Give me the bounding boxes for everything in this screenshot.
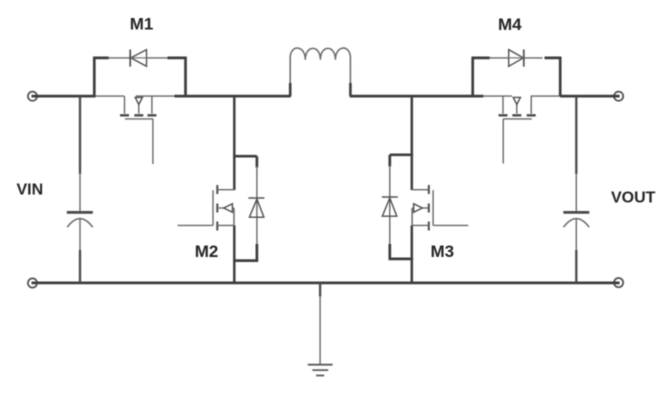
svg-text:VOUT: VOUT xyxy=(611,189,656,206)
inductor L1 xyxy=(290,48,350,96)
diode D1 (M1 body diode) xyxy=(130,50,146,67)
wire D3 branch lead xyxy=(389,166,391,246)
wire top rail M1 drain side (thin) xyxy=(94,95,124,97)
wire D1 anode lead xyxy=(147,57,169,59)
terminal node VOUT+ xyxy=(614,92,623,101)
wire top rail VIN+ to M1 riser xyxy=(32,95,95,98)
wire M3 drain branch xyxy=(411,96,414,190)
wire M2 source branch to bottom rail xyxy=(233,225,236,283)
wire M2 diode bottom jog xyxy=(233,259,258,262)
svg-text:M3: M3 xyxy=(430,242,454,261)
wire bottom rail xyxy=(32,281,620,284)
wire ground stem xyxy=(319,283,321,297)
ground xyxy=(308,365,333,376)
wire D4 anode lead xyxy=(489,57,509,59)
diode D3 (M3 body diode) xyxy=(382,197,398,216)
wire D2 branch lead xyxy=(256,166,258,245)
terminal node VIN- xyxy=(28,278,37,287)
transistor M2 xyxy=(178,185,235,231)
wire D1 cathode lead xyxy=(108,57,130,59)
svg-text:M4: M4 xyxy=(498,15,522,34)
svg-text:M1: M1 xyxy=(130,15,154,34)
wire M3 diode bottom jog xyxy=(389,258,414,261)
wire top rail M1 source side (thin) xyxy=(136,95,176,97)
wire D3 anode thick lead xyxy=(388,244,391,259)
wire top rail M4 source side (thin) xyxy=(483,95,513,97)
wire top rail M4 drain side (thin) xyxy=(531,95,561,97)
diode D2 (M2 body diode) xyxy=(248,198,264,217)
wire M2 diode top jog xyxy=(233,156,257,167)
transistor M4 xyxy=(499,96,536,163)
capacitor COUT xyxy=(563,96,589,283)
wire D4 cathode lead xyxy=(524,57,543,59)
terminal node VOUT- xyxy=(614,278,623,287)
wire M4 upper branch left riser xyxy=(471,58,489,96)
transistor M3 xyxy=(412,185,469,231)
wire D2 anode thick lead xyxy=(256,244,259,261)
svg-text:M2: M2 xyxy=(195,242,219,261)
wire M1 upper branch right riser xyxy=(168,57,187,97)
terminal node VIN+ xyxy=(28,92,37,101)
diode D4 (M4 body diode) xyxy=(509,50,524,67)
wire M4 upper branch right riser xyxy=(545,58,562,96)
wire top rail M1 to inductor (switch node A) xyxy=(175,95,291,98)
wire M1 upper branch left riser xyxy=(93,58,109,98)
wire top rail inductor to M4 (switch node B) xyxy=(350,95,484,98)
svg-text:VIN: VIN xyxy=(17,182,44,199)
wire M3 diode top jog xyxy=(390,155,413,167)
wire top rail M4 to VOUT+ xyxy=(560,95,619,98)
wire M3 source branch to bottom rail xyxy=(411,225,414,283)
wire M2 drain branch xyxy=(233,96,236,190)
capacitor CIN xyxy=(67,96,93,283)
transistor M1 xyxy=(120,96,156,164)
